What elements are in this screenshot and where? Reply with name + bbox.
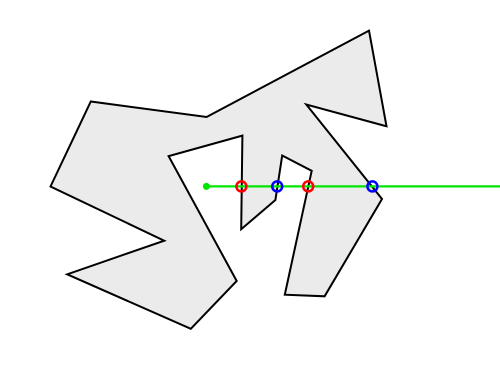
crossing marker blue 1 [272, 181, 282, 191]
crossing marker red 2 [303, 181, 313, 191]
point P [203, 183, 210, 190]
polygon [51, 31, 387, 329]
crossing marker red 1 [236, 181, 246, 191]
crossing marker blue 2 [367, 181, 377, 191]
ray [206, 185, 500, 187]
